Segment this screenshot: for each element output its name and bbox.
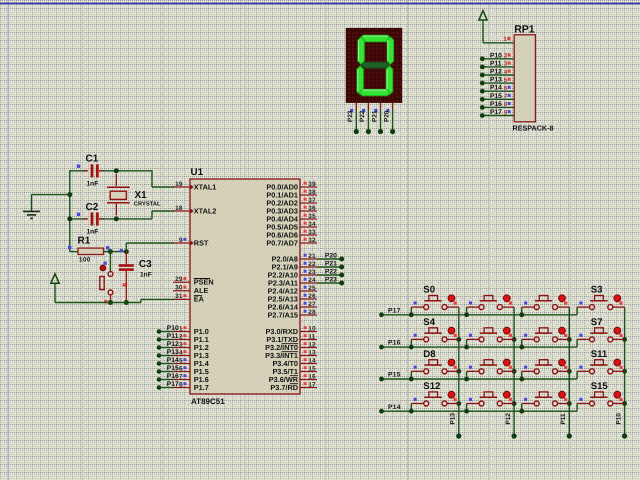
- svg-text:P20: P20: [325, 252, 337, 259]
- svg-text:AT89C51: AT89C51: [191, 397, 225, 406]
- node bus-ground junction: [67, 192, 72, 197]
- svg-text:34: 34: [308, 221, 316, 228]
- svg-text:P10: P10: [615, 413, 622, 425]
- svg-text:D8: D8: [423, 349, 436, 360]
- svg-text:10: 10: [308, 325, 316, 332]
- svg-text:18: 18: [175, 205, 183, 212]
- svg-text:P17: P17: [167, 381, 179, 388]
- svg-text:R1: R1: [78, 235, 91, 246]
- svg-text:P22: P22: [325, 268, 337, 275]
- svg-text:P2.7/A15: P2.7/A15: [268, 310, 298, 319]
- node C2-XTAL junction: [114, 216, 119, 221]
- svg-text:1: 1: [503, 36, 507, 43]
- svg-text:S15: S15: [591, 381, 609, 392]
- svg-text:39: 39: [308, 181, 316, 188]
- svg-text:XTAL2: XTAL2: [194, 206, 217, 215]
- button keypad r4c1 S12: [409, 381, 459, 414]
- keypad row bus P17: [379, 307, 577, 317]
- svg-text:17: 17: [308, 381, 316, 388]
- wire to RST pin 9: [126, 243, 174, 252]
- segment G unlit: [361, 62, 389, 68]
- svg-text:21: 21: [308, 253, 316, 260]
- svg-text:5: 5: [179, 357, 183, 364]
- svg-text:11: 11: [308, 333, 316, 340]
- svg-text:3: 3: [179, 341, 183, 348]
- svg-text:S0: S0: [423, 285, 435, 296]
- svg-text:24: 24: [308, 277, 316, 284]
- button keypad r1c1 S0: [409, 285, 459, 318]
- button keypad r2c3: [519, 327, 569, 349]
- power terminal arrow: [51, 274, 59, 303]
- svg-text:S12: S12: [423, 381, 440, 392]
- svg-text:C1: C1: [86, 153, 99, 164]
- svg-text:P15: P15: [490, 93, 502, 100]
- P1 net stubs with labels: [157, 325, 179, 390]
- svg-text:RESPACK-8: RESPACK-8: [513, 124, 554, 133]
- svg-text:P22: P22: [359, 110, 366, 122]
- wire node to button: [109, 252, 111, 272]
- svg-text:25: 25: [308, 285, 316, 292]
- svg-text:33: 33: [308, 229, 316, 236]
- segment C: [386, 66, 392, 95]
- svg-text:8: 8: [504, 101, 508, 108]
- svg-text:13: 13: [308, 349, 316, 356]
- node bus-C2 junction: [67, 216, 72, 221]
- node C1-XTAL junction: [114, 168, 119, 173]
- capacitor C1: [77, 153, 104, 187]
- svg-text:P11: P11: [560, 413, 567, 424]
- keypad row bus P14: [379, 404, 577, 414]
- svg-text:P14: P14: [388, 404, 401, 411]
- push button reset: [100, 262, 113, 304]
- svg-text:S4: S4: [423, 317, 435, 328]
- svg-text:P16: P16: [167, 373, 179, 380]
- svg-text:P17: P17: [388, 307, 401, 314]
- node R1 right junction: [108, 249, 113, 254]
- svg-text:35: 35: [308, 213, 316, 220]
- svg-text:30: 30: [175, 285, 183, 292]
- svg-text:C3: C3: [139, 259, 152, 270]
- U1 left pins: [173, 181, 216, 392]
- button keypad r4c3: [519, 391, 569, 413]
- wire C2 row to XTAL2: [70, 211, 174, 219]
- crystal X1: [107, 174, 161, 216]
- svg-text:19: 19: [175, 181, 183, 188]
- svg-text:P12: P12: [490, 69, 502, 76]
- capacitor C3: [119, 249, 152, 303]
- svg-text:P23: P23: [325, 276, 337, 283]
- svg-text:P15: P15: [388, 372, 401, 379]
- node button bottom junction: [108, 300, 113, 305]
- svg-text:9: 9: [504, 109, 508, 116]
- segment A: [360, 35, 391, 41]
- resistor R1: [68, 235, 111, 263]
- svg-text:XTAL1: XTAL1: [194, 182, 217, 191]
- svg-text:9: 9: [179, 237, 183, 244]
- svg-text:U1: U1: [191, 167, 204, 178]
- svg-text:S7: S7: [591, 317, 603, 328]
- segment E: [357, 66, 363, 95]
- svg-text:P13: P13: [167, 349, 179, 356]
- button keypad r1c3: [519, 295, 569, 317]
- svg-text:P21: P21: [371, 110, 378, 122]
- power terminal arrow RP1: [479, 11, 514, 43]
- button keypad r3c4 S11: [577, 349, 625, 374]
- RP1 pins 2-9: [480, 52, 514, 118]
- svg-text:1: 1: [179, 325, 183, 332]
- svg-text:P1.7: P1.7: [194, 383, 209, 392]
- svg-text:36: 36: [308, 205, 316, 212]
- keypad row bus P16: [379, 339, 577, 349]
- svg-text:P14: P14: [167, 357, 179, 364]
- svg-text:P10: P10: [167, 325, 179, 332]
- wire R1 to C3 node: [110, 251, 126, 253]
- node C3 bottom junction: [124, 300, 129, 305]
- svg-text:1nF: 1nF: [140, 271, 152, 278]
- svg-text:7: 7: [179, 373, 183, 380]
- svg-text:CRYSTAL: CRYSTAL: [134, 201, 161, 208]
- svg-text:S3: S3: [591, 285, 603, 296]
- svg-text:P23: P23: [347, 110, 354, 122]
- svg-text:P16: P16: [388, 340, 401, 347]
- keypad column P13: [450, 307, 462, 439]
- wire bottom to EA pin 31: [55, 299, 174, 302]
- segment F: [358, 37, 364, 64]
- svg-text:P11: P11: [167, 333, 179, 340]
- svg-text:X1: X1: [135, 190, 148, 201]
- wire to ground: [32, 195, 70, 211]
- P2 net wires with labels: [317, 252, 344, 285]
- 7-segment display body: [346, 28, 401, 102]
- svg-text:14: 14: [308, 357, 316, 364]
- svg-text:3: 3: [504, 61, 508, 68]
- button keypad r2c1 S4: [409, 317, 459, 350]
- svg-text:RST: RST: [194, 238, 209, 247]
- svg-text:P12: P12: [505, 413, 512, 425]
- svg-text:P12: P12: [167, 341, 179, 348]
- button keypad r2c2: [464, 327, 514, 349]
- wire C1 row to XTAL1: [70, 170, 174, 187]
- svg-text:27: 27: [308, 301, 316, 308]
- svg-text:6: 6: [504, 85, 508, 92]
- U1 right pins: [265, 181, 317, 392]
- svg-text:15: 15: [308, 365, 316, 372]
- op-chip U1 AT89C51 body: [190, 167, 300, 406]
- svg-text:16: 16: [308, 373, 316, 380]
- button keypad r4c2: [464, 391, 514, 413]
- segment D: [359, 89, 390, 95]
- button keypad r4c4 S15: [577, 381, 625, 406]
- svg-text:26: 26: [308, 293, 316, 300]
- ground: [23, 211, 40, 218]
- svg-text:4: 4: [504, 69, 508, 76]
- node C3 top junction: [124, 249, 129, 254]
- button keypad r2c4 S7: [577, 317, 625, 342]
- svg-text:1nF: 1nF: [87, 181, 99, 188]
- svg-text:S11: S11: [591, 349, 608, 360]
- svg-text:2: 2: [504, 53, 508, 60]
- svg-text:29: 29: [175, 276, 183, 283]
- svg-text:P13: P13: [450, 413, 457, 425]
- svg-text:P20: P20: [383, 110, 390, 122]
- svg-text:P15: P15: [167, 365, 179, 372]
- svg-text:P11: P11: [490, 60, 502, 67]
- button keypad r1c2: [464, 295, 514, 317]
- svg-text:P16: P16: [490, 101, 502, 108]
- svg-text:7: 7: [504, 93, 508, 100]
- svg-text:22: 22: [308, 261, 316, 268]
- keypad column P12: [505, 307, 517, 439]
- svg-text:2: 2: [179, 333, 183, 340]
- svg-text:28: 28: [308, 309, 316, 316]
- capacitor C2: [77, 202, 104, 236]
- svg-text:4: 4: [179, 349, 183, 356]
- svg-text:EA: EA: [194, 295, 205, 304]
- svg-text:P10: P10: [490, 52, 502, 59]
- segment B: [387, 37, 393, 64]
- svg-text:P0.7/AD7: P0.7/AD7: [266, 238, 298, 247]
- svg-text:37: 37: [308, 197, 316, 204]
- svg-text:6: 6: [179, 365, 183, 372]
- svg-text:38: 38: [308, 189, 316, 196]
- svg-text:RP1: RP1: [514, 23, 535, 35]
- svg-text:8: 8: [179, 381, 183, 388]
- svg-text:P14: P14: [490, 85, 502, 92]
- display pins: [347, 102, 395, 134]
- keypad column P11: [560, 307, 572, 439]
- svg-text:P13: P13: [490, 77, 502, 84]
- svg-text:12: 12: [308, 341, 316, 348]
- keypad row bus P15: [379, 371, 577, 381]
- button keypad r3c2: [464, 359, 514, 381]
- svg-text:5: 5: [504, 77, 508, 84]
- svg-text:100: 100: [79, 256, 91, 263]
- svg-text:P21: P21: [325, 260, 337, 267]
- button keypad r1c4 S3: [577, 285, 625, 310]
- button keypad r3c3: [519, 359, 569, 381]
- keypad column P10: [615, 307, 627, 439]
- wire left vertical bus: [69, 170, 71, 252]
- button keypad r3c1 D8: [409, 349, 459, 382]
- svg-text:31: 31: [175, 293, 183, 300]
- resistor pack RP1: [503, 23, 553, 132]
- svg-text:32: 32: [308, 237, 316, 244]
- svg-text:23: 23: [308, 269, 316, 276]
- svg-text:P17: P17: [490, 109, 502, 116]
- svg-text:C2: C2: [86, 202, 99, 213]
